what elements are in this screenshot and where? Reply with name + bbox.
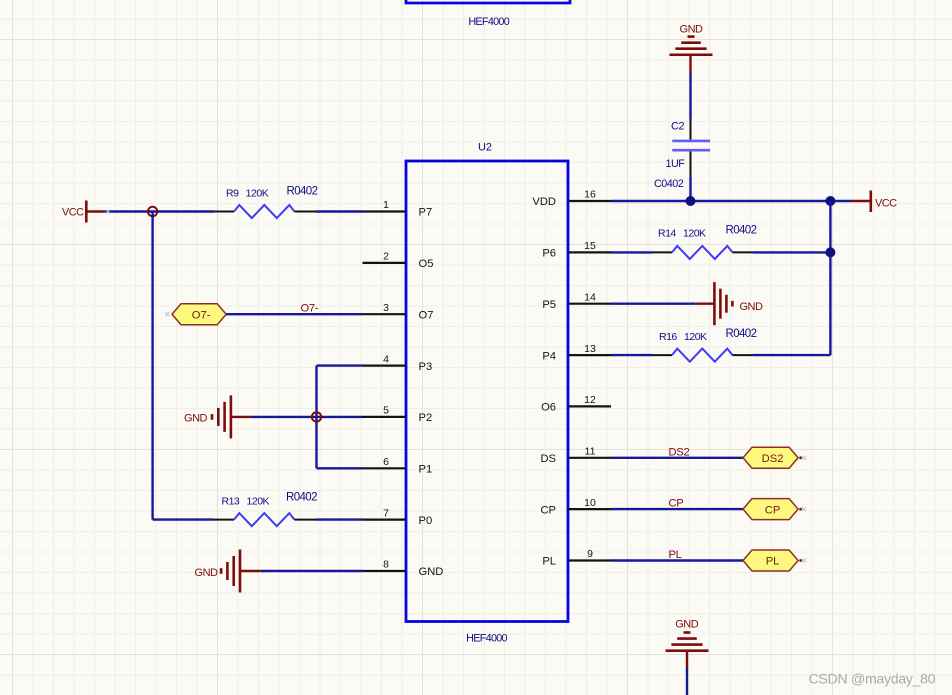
svg-text:P1: P1 [419,464,433,476]
svg-text:GND: GND [675,619,699,631]
svg-text:P2: P2 [419,412,433,424]
wire R9 to pin 1 [316,210,363,212]
IC U2 HEF4000 body [406,161,568,622]
svg-text:1UF: 1UF [666,158,686,170]
node A junction ring [148,207,157,216]
wire O7- to pin 3 [226,313,362,315]
wire pin 13 to R16 [611,354,652,356]
wire pin 11 to DS2 [611,457,743,459]
svg-text:DS2: DS2 [669,447,690,459]
port DS2 [743,447,798,468]
svg-text:R9 120K: R9 120K [226,188,269,200]
svg-text:GND: GND [195,567,219,579]
svg-text:VCC: VCC [875,197,897,209]
wire left rail to R13 [153,518,214,520]
wire bottom GND stem [686,651,688,669]
svg-text:13: 13 [584,343,596,355]
resistor R14 [652,251,672,253]
svg-text:10: 10 [584,497,596,509]
svg-text:P4: P4 [542,350,556,362]
svg-text:CSDN @mayday_80: CSDN @mayday_80 [809,672,936,688]
svg-text:P0: P0 [419,515,433,527]
port CP [743,499,798,520]
svg-text:3: 3 [383,302,389,314]
wire right rail [829,201,831,355]
svg-text:PL: PL [542,556,556,568]
svg-text:7: 7 [383,507,389,519]
svg-text:CP: CP [765,504,781,516]
junction VCC node [825,196,835,206]
wire pin 9 to PL [611,559,743,561]
svg-text:4: 4 [383,353,389,365]
svg-text:GND: GND [419,566,444,578]
svg-text:DS: DS [540,453,556,465]
wire bracket to pin 4 [317,364,363,366]
svg-text:9: 9 [587,548,593,560]
svg-text:PL: PL [766,556,780,568]
svg-text:R0402: R0402 [287,186,318,198]
pin 4 (P3) [363,365,407,367]
svg-text:CP: CP [540,504,556,516]
pin 7 (P0) [363,518,407,520]
pin 3 (O7) [363,313,407,315]
pin 15 (P6) [568,251,611,253]
svg-text:O7-: O7- [301,303,319,315]
wire left rail down [151,212,153,520]
pin 12 (O6) [568,405,611,407]
svg-text:R13 120K: R13 120K [222,496,270,508]
wire bracket vertical [315,366,317,469]
svg-text:U2: U2 [478,142,492,154]
svg-text:14: 14 [584,291,596,303]
svg-text:8: 8 [383,559,389,571]
wire R16 to rail [753,354,830,356]
svg-text:2: 2 [383,251,389,263]
node B junction ring [312,412,321,421]
svg-text:1: 1 [383,199,389,211]
svg-text:P5: P5 [542,299,556,311]
power VCC (right) [851,200,870,202]
pin 10 (CP) [568,508,611,510]
wire pin 10 to CP [611,508,743,510]
svg-text:12: 12 [584,394,596,406]
svg-text:O7: O7 [419,309,434,321]
wire pin 14 to GND [611,303,695,305]
wire pin 15 to R14 [611,251,652,253]
junction C2 node [686,196,696,206]
wire GND to node B [251,416,363,418]
pin 2 (O5) [363,262,407,264]
resistor R13 [214,519,234,521]
pin 1 (P7) [363,210,407,212]
svg-text:R0402: R0402 [286,492,317,504]
port PL [743,550,798,571]
wire R14 to rail [753,251,830,253]
svg-text:HEF4000: HEF4000 [466,633,507,645]
wire R13 to pin 7 [316,518,363,520]
pin 6 (P1) [363,467,407,469]
svg-text:R0402: R0402 [726,328,757,340]
svg-text:15: 15 [584,240,596,252]
port O7- [165,312,169,316]
svg-text:R14 120K: R14 120K [658,228,706,240]
ground GND (P5 net) [695,303,714,305]
wire pin 16 VDD net [611,200,851,202]
svg-text:VCC: VCC [62,207,84,219]
svg-text:GND: GND [740,301,764,313]
svg-text:C2: C2 [671,121,684,133]
resistor R9 [214,211,234,213]
svg-text:5: 5 [383,405,389,417]
svg-text:C0402: C0402 [654,178,684,190]
svg-text:GND: GND [184,412,208,424]
pin 16 (VDD) [568,200,611,202]
svg-text:DS2: DS2 [762,453,784,465]
svg-text:R0402: R0402 [726,225,757,237]
wire GND to pin 8 [261,570,363,572]
svg-text:VDD: VDD [532,196,556,208]
junction R14 rail [825,247,835,257]
svg-text:O5: O5 [419,258,434,270]
svg-text:R16 120K: R16 120K [659,331,707,343]
pin 11 (DS) [568,457,611,459]
wire bracket to pin 6 [317,467,363,469]
svg-text:O6: O6 [541,402,556,414]
wire C2 to VDD net [689,176,691,201]
svg-text:CP: CP [669,498,684,510]
svg-text:PL: PL [669,549,682,561]
svg-text:6: 6 [383,456,389,468]
wire VCC to node A [105,210,214,212]
pin 8 (GND) [363,570,407,572]
pin 14 (P5) [568,303,611,305]
pin 13 (P4) [568,354,611,356]
capacitor C2 [690,119,692,140]
svg-text:O7-: O7- [192,309,211,321]
svg-text:HEF4000: HEF4000 [468,16,509,28]
svg-text:P3: P3 [419,361,433,373]
pin 9 (PL) [568,559,611,561]
IC U? (partial, top of sheet) [406,0,570,3]
pin 5 (P2) [363,416,407,418]
svg-text:P6: P6 [542,248,556,260]
svg-text:11: 11 [585,446,596,458]
svg-text:16: 16 [584,189,596,201]
resistor R16 [652,354,672,356]
wire GND to C2 [689,55,691,74]
svg-text:P7: P7 [419,207,433,219]
svg-text:GND: GND [680,23,704,35]
